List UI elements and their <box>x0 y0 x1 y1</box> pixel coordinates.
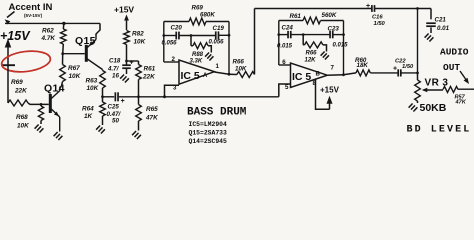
capacitor C19 <box>216 31 229 39</box>
capacitor C23 <box>330 31 343 38</box>
node junction R82/C18/R61 <box>125 60 128 63</box>
resistor R66 12K <box>303 35 326 52</box>
wire T2 left vertical <box>278 21 280 66</box>
node AUDIO OUT label <box>440 47 469 73</box>
ground C21 <box>425 34 434 42</box>
transistor Q14 <box>49 87 60 132</box>
capacitor C16 <box>372 5 431 12</box>
node BD LEVEL label <box>407 125 472 136</box>
svg-text:0.015: 0.015 <box>333 43 349 49</box>
svg-text:R68: R68 <box>16 114 28 121</box>
resistor R61 560K <box>279 17 344 24</box>
power +15V arrow R82 <box>124 15 129 31</box>
svg-text:22K: 22K <box>14 88 27 95</box>
capacitor C18 value <box>107 58 121 80</box>
resistor R69 680K value <box>192 5 216 19</box>
svg-text:+15V: +15V <box>114 5 134 15</box>
svg-text:AUDIO: AUDIO <box>440 47 469 58</box>
ground R88 <box>205 53 213 61</box>
power +15V arrow <box>5 39 12 67</box>
svg-text:BD LEVEL: BD LEVEL <box>407 125 472 136</box>
resistor R66 10K value <box>233 59 247 73</box>
node junction C23/T2 right <box>342 33 345 36</box>
resistor R66 10K <box>229 72 255 78</box>
svg-text:C20: C20 <box>171 25 183 32</box>
resistor R63 <box>100 70 106 97</box>
svg-text:OUT: OUT <box>443 62 460 73</box>
potentiometer VR3 <box>415 73 421 103</box>
wire R63 junction to C25 <box>103 96 115 98</box>
ground Q14 emitter <box>54 132 63 140</box>
wire top run <box>255 8 372 10</box>
resistor R61 560K value <box>290 12 337 20</box>
wire T1 left vertical <box>163 22 165 63</box>
node connector bar (circled) <box>2 64 15 66</box>
capacitor C24 value <box>277 44 293 50</box>
svg-text:47K: 47K <box>455 100 467 106</box>
resistor R63 value <box>86 78 99 93</box>
svg-text:2: 2 <box>172 56 176 63</box>
svg-text:R69: R69 <box>11 79 23 86</box>
node junction C20/R88 <box>190 34 193 37</box>
wire C20 to C19 <box>179 35 215 37</box>
svg-text:B: B <box>316 72 321 78</box>
svg-text:R66: R66 <box>233 59 245 66</box>
resistor R62 <box>61 23 67 53</box>
resistor R88 value <box>190 52 204 65</box>
resistor R62 value <box>41 28 56 42</box>
svg-text:+: + <box>366 3 370 10</box>
svg-text:R88: R88 <box>192 52 204 58</box>
svg-text:10K: 10K <box>134 39 146 46</box>
svg-text:0.01: 0.01 <box>437 25 450 32</box>
op-amp U IC5A <box>179 60 214 84</box>
resistor R82 <box>124 31 130 62</box>
resistor R67 value <box>68 65 81 80</box>
pin 2 wire <box>164 56 179 63</box>
capacitor C23 label <box>328 26 340 33</box>
svg-text:+15V: +15V <box>320 86 340 95</box>
svg-text:C16: C16 <box>372 15 383 21</box>
svg-text:1/50: 1/50 <box>374 21 386 27</box>
svg-text:R62: R62 <box>42 28 54 35</box>
capacitor C22 <box>398 69 417 76</box>
wire +15V to R69 <box>7 65 9 103</box>
resistor R68 <box>38 104 43 124</box>
svg-text:C25: C25 <box>108 104 120 111</box>
resistor R68 value <box>16 114 29 130</box>
pin 3 wire <box>165 85 180 97</box>
node junction T2 left <box>277 33 280 36</box>
svg-text:+: + <box>393 66 397 73</box>
resistor R64 <box>100 97 106 125</box>
wire bias node to R61 <box>127 60 139 62</box>
capacitor C25 value <box>107 104 122 125</box>
pin 5 wire <box>279 84 291 97</box>
pin 1 output wire <box>214 63 229 74</box>
svg-text:10K: 10K <box>69 73 81 80</box>
capacitor C24 <box>279 31 291 38</box>
wire C24 to C23 <box>291 34 330 36</box>
wire accent rail <box>5 22 100 24</box>
potentiometer VR3 label <box>425 78 449 89</box>
node BASS DRUM title <box>187 107 247 119</box>
svg-text:680K: 680K <box>200 12 215 19</box>
svg-text:560K: 560K <box>322 12 337 19</box>
capacitor C21 <box>426 9 436 34</box>
svg-text:0.015: 0.015 <box>277 44 293 50</box>
node AUDIO OUT arrow <box>460 71 469 84</box>
ground VR3 <box>409 104 418 112</box>
ground R68 <box>35 125 44 133</box>
svg-text:(5V-15V): (5V-15V) <box>24 13 43 18</box>
ground R66 12K <box>321 52 329 60</box>
svg-text:Accent IN: Accent IN <box>9 2 53 13</box>
svg-text:18K: 18K <box>357 62 369 69</box>
resistor R65 value <box>145 106 158 122</box>
svg-text:C24: C24 <box>282 25 294 32</box>
svg-text:47K: 47K <box>145 115 158 122</box>
svg-text:22K: 22K <box>142 74 155 81</box>
transistor Q15 label <box>75 35 96 47</box>
svg-text:C19: C19 <box>213 25 225 32</box>
resistor R61 value <box>142 66 156 81</box>
svg-text:12K: 12K <box>305 58 317 64</box>
svg-text:Q14=2SC945: Q14=2SC945 <box>189 138 228 144</box>
svg-text:A: A <box>203 73 208 79</box>
svg-text:R61: R61 <box>290 13 302 20</box>
svg-text:1K: 1K <box>84 113 93 120</box>
svg-text:10K: 10K <box>235 66 247 73</box>
pin 6 wire <box>279 59 291 66</box>
resistor R60 <box>344 70 371 76</box>
capacitor C19 label <box>213 25 225 32</box>
resistor R69 value <box>11 79 27 95</box>
node junction C19/T1 right <box>228 34 231 37</box>
svg-text:16: 16 <box>112 73 119 80</box>
svg-text:8: 8 <box>313 80 317 87</box>
op-amp U IC5B <box>291 63 328 88</box>
ground R65 <box>132 131 141 139</box>
power +15V (hand annotation) <box>0 29 31 43</box>
svg-text:C21: C21 <box>435 17 447 24</box>
svg-text:IC 5: IC 5 <box>292 71 311 83</box>
svg-text:R64: R64 <box>82 106 94 113</box>
power +15V IC5B <box>320 86 340 110</box>
svg-text:1: 1 <box>216 63 220 70</box>
svg-text:10K: 10K <box>17 123 29 130</box>
resistor R60 value <box>355 57 368 69</box>
svg-text:Q15=2SA733: Q15=2SA733 <box>189 129 228 136</box>
capacitor C18 plus <box>130 60 134 67</box>
resistor R69 680K <box>164 18 229 25</box>
wire R69 to Q14 base <box>28 103 49 104</box>
node junction pin1/T1 <box>228 73 231 76</box>
node junction C24/R66-12K <box>302 33 305 36</box>
svg-text:0.056: 0.056 <box>209 40 225 46</box>
capacitor C16 value <box>372 15 386 28</box>
svg-text:R63: R63 <box>86 78 98 85</box>
svg-text:50KB: 50KB <box>420 102 447 114</box>
svg-text:C18: C18 <box>109 58 121 65</box>
svg-text:50: 50 <box>112 118 119 125</box>
svg-text:3: 3 <box>173 85 177 92</box>
svg-text:R66: R66 <box>306 51 318 57</box>
annotation red circle <box>0 49 51 75</box>
node junction bias/pin3 <box>163 95 166 98</box>
transistor Q14 label <box>44 83 65 95</box>
potentiometer VR3 wiper <box>422 88 443 92</box>
capacitor C22 plus <box>393 66 397 73</box>
capacitor C20 <box>164 32 179 40</box>
power +15V (R82 supply) <box>114 5 134 15</box>
resistor R57 value <box>455 95 467 106</box>
capacitor C25 plus <box>121 98 125 105</box>
node IC5 note <box>189 121 228 128</box>
node junction R62/R67/Q15 <box>61 52 64 55</box>
ground R64 <box>96 126 105 134</box>
wire R67 to Q14 collector <box>60 86 62 88</box>
capacitor C23 value <box>333 43 349 49</box>
resistor R88 <box>191 36 211 53</box>
wire R60 to C22 <box>370 72 398 74</box>
resistor R64 value <box>82 106 94 121</box>
resistor R65 <box>136 97 142 131</box>
node junction accent/R62 <box>62 22 65 25</box>
wire Q15 base <box>63 53 85 55</box>
resistor R61 <box>136 61 142 97</box>
node junction audio <box>416 72 419 75</box>
svg-text:+: + <box>121 98 125 105</box>
svg-text:R67: R67 <box>68 65 80 72</box>
ground C18 <box>120 75 129 83</box>
svg-text:IC5=LM2904: IC5=LM2904 <box>189 121 228 128</box>
capacitor C19 value <box>209 40 225 46</box>
svg-text:5: 5 <box>285 84 289 91</box>
svg-text:R65: R65 <box>146 106 158 113</box>
wire accent rail to Q15 emitter <box>96 23 100 36</box>
node junction R63/R64/C25 <box>101 95 104 98</box>
capacitor C25 <box>115 92 118 101</box>
node junction R69/R68 <box>40 103 43 106</box>
potentiometer VR3 value <box>420 102 447 114</box>
svg-text:0.056: 0.056 <box>162 41 178 47</box>
capacitor C24 label <box>282 25 294 32</box>
svg-text:R82: R82 <box>132 31 144 38</box>
capacitor C20 label <box>171 25 183 32</box>
node junction R61/R65 bias node <box>137 95 140 98</box>
wire bias row <box>119 96 279 98</box>
capacitor C22 value <box>395 59 414 71</box>
svg-text:1/50: 1/50 <box>402 64 414 70</box>
svg-text:6: 6 <box>282 59 286 66</box>
node Accent IN label <box>9 2 53 18</box>
capacitor C18 <box>122 61 131 74</box>
wire audio column <box>417 9 419 73</box>
svg-text:BASS DRUM: BASS DRUM <box>187 107 247 119</box>
node junction pin7/T2 <box>342 73 345 76</box>
wire T1 right vertical <box>228 22 230 75</box>
capacitor C16 plus <box>366 3 370 10</box>
wire T2 right vertical <box>343 21 345 75</box>
svg-text:C23: C23 <box>328 26 340 33</box>
capacitor C20 value <box>162 41 178 47</box>
wire riser to top <box>254 9 256 75</box>
pin 7 output wire <box>327 65 343 76</box>
svg-text:R69: R69 <box>192 5 204 12</box>
transistor Q15 <box>85 36 103 70</box>
svg-text:10K: 10K <box>87 85 99 92</box>
resistor R66 12K value <box>305 51 318 64</box>
resistor R82 value <box>132 31 146 46</box>
node Accent IN arrow <box>5 12 15 25</box>
resistor R67 <box>60 54 66 86</box>
svg-text:+15V: +15V <box>0 29 31 43</box>
resistor R69 <box>8 100 28 106</box>
capacitor C21 value <box>435 17 450 33</box>
svg-text:IC 5: IC 5 <box>181 70 200 82</box>
node Q14 note <box>189 138 228 145</box>
svg-text:4.7K: 4.7K <box>41 35 56 42</box>
resistor R57 <box>443 86 474 92</box>
svg-text:4.7/: 4.7/ <box>107 66 120 73</box>
node junction T1 left <box>162 34 165 37</box>
node Q15 note <box>189 129 228 136</box>
svg-text:7: 7 <box>331 65 335 72</box>
svg-text:R61: R61 <box>144 66 156 73</box>
node junction top/audio column <box>416 7 419 10</box>
pin 8 power stub <box>313 80 330 110</box>
